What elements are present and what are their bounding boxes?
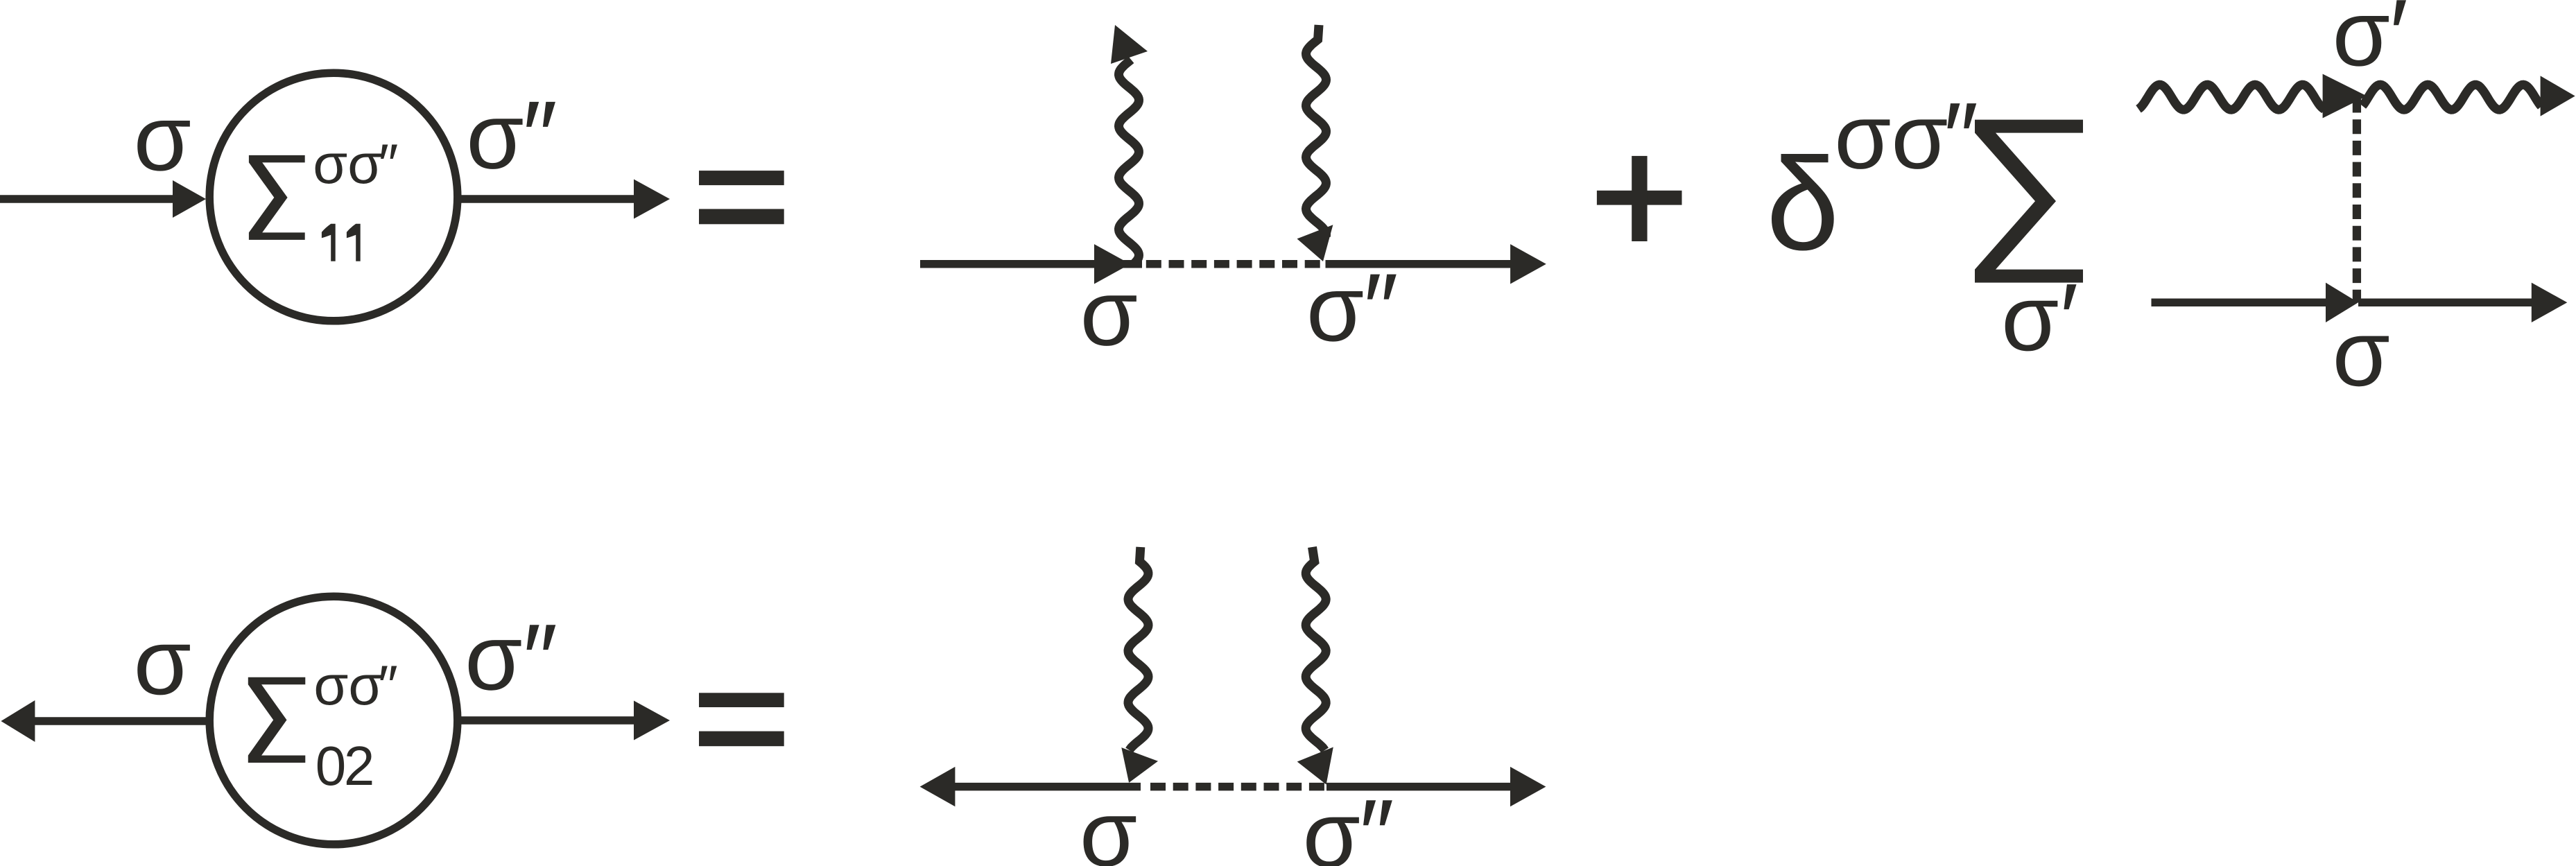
svg-text:′: ′: [2389, 0, 2408, 89]
svg-text:″: ″: [523, 604, 557, 714]
svg-text:σσ: σσ: [313, 133, 382, 196]
svg-text:σ: σ: [1080, 781, 1137, 866]
svg-text:σ: σ: [2001, 266, 2059, 370]
svg-text:σ: σ: [1303, 782, 1360, 866]
svg-text:2: 2: [344, 735, 375, 797]
svg-text:″: ″: [1363, 253, 1398, 363]
svg-text:σ: σ: [466, 84, 524, 189]
svg-text:σ: σ: [1306, 256, 1364, 361]
svg-text:″: ″: [378, 655, 398, 717]
svg-text:σ: σ: [1080, 261, 1138, 365]
svg-text:σ: σ: [2333, 301, 2390, 406]
svg-text:δ: δ: [1766, 131, 1840, 278]
svg-text:σ: σ: [134, 85, 191, 190]
svg-text:″: ″: [1359, 779, 1394, 866]
svg-text:σσ: σσ: [313, 655, 383, 717]
svg-text:0: 0: [315, 735, 347, 797]
svg-text:″: ″: [379, 133, 399, 196]
svg-text:σ: σ: [134, 609, 191, 714]
svg-text:″: ″: [1944, 83, 1978, 193]
svg-text:σ: σ: [2333, 0, 2390, 85]
svg-text:σ: σ: [465, 605, 522, 709]
svg-text:″: ″: [522, 81, 557, 191]
svg-text:′: ′: [2060, 263, 2079, 374]
svg-text:σσ: σσ: [1834, 86, 1948, 189]
